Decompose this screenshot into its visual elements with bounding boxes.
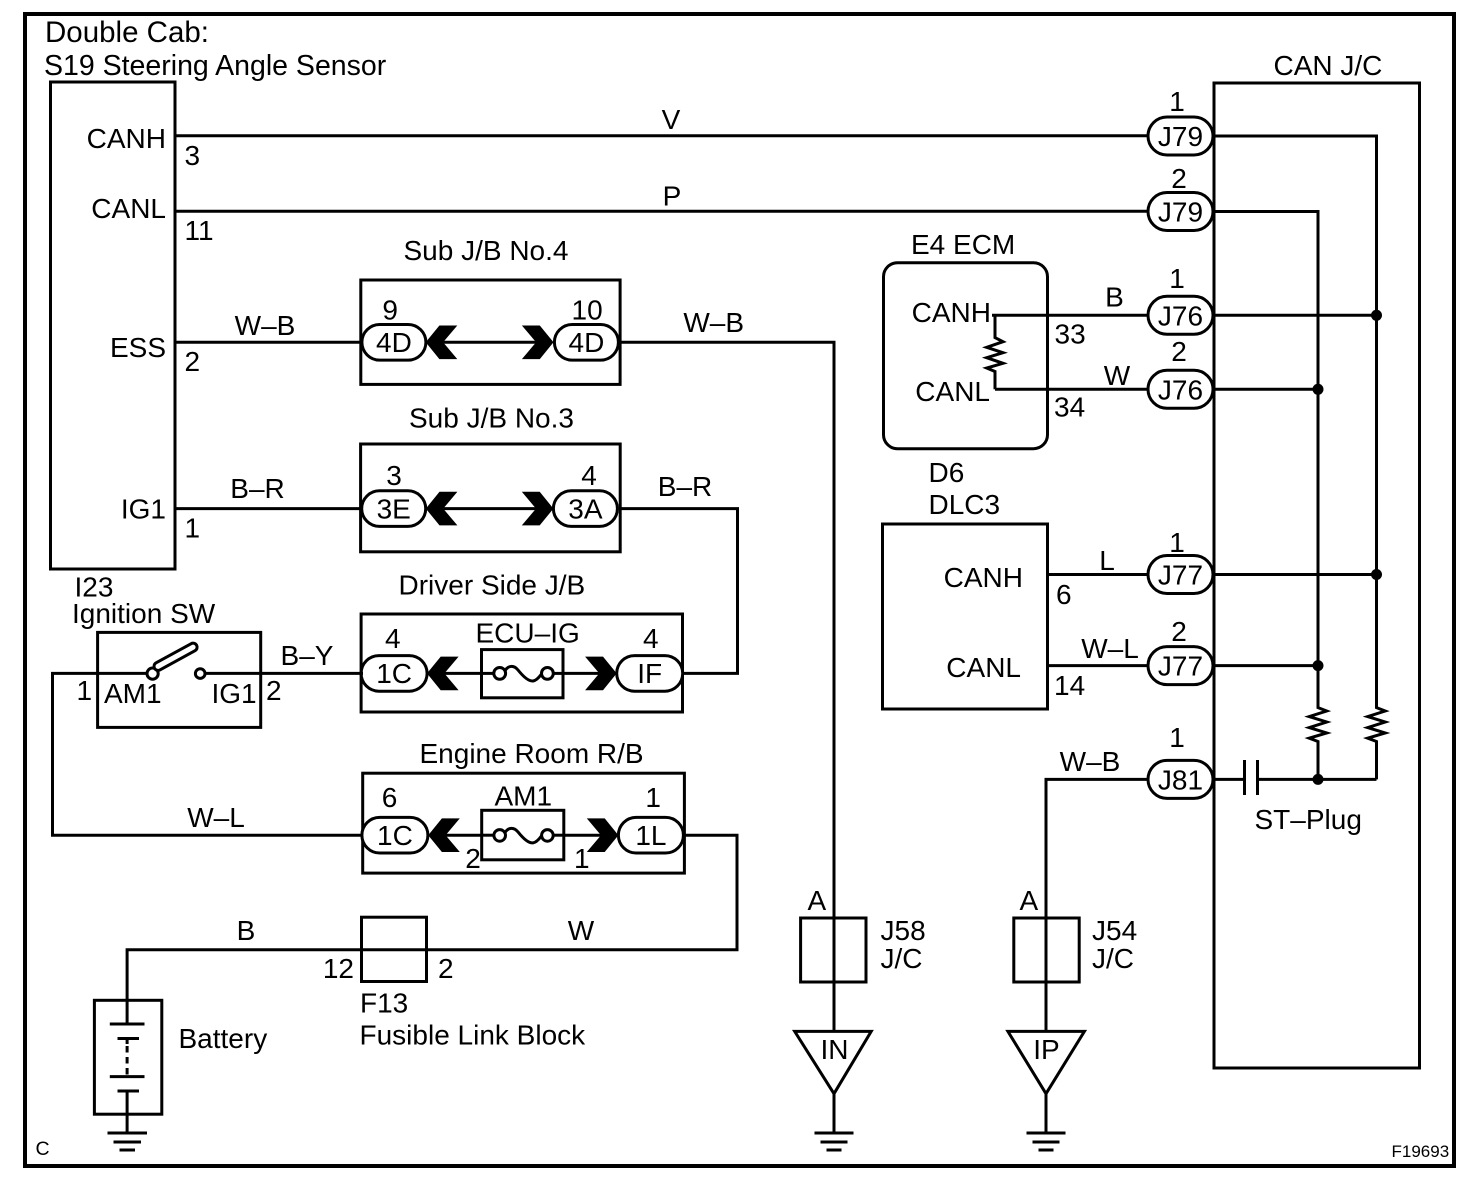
svg-text:CANL: CANL: [946, 652, 1021, 683]
wire W from 1L to fusible link F13: [427, 835, 738, 950]
svg-text:Fusible Link Block: Fusible Link Block: [360, 1020, 587, 1051]
svg-text:1: 1: [185, 513, 201, 544]
connector J77 pin 2: [1148, 647, 1213, 685]
junction J58 J/C square: [801, 918, 866, 982]
junction dot ST-plug CANL: [1313, 774, 1324, 785]
fuse AM1: [482, 781, 564, 860]
svg-text:Engine Room R/B: Engine Room R/B: [420, 738, 644, 769]
battery dashed center: [126, 1039, 129, 1045]
svg-text:CAN J/C: CAN J/C: [1274, 50, 1383, 81]
wire L from DLC3 CANH to J77 pin 1: [1048, 573, 1149, 576]
svg-text:B–R: B–R: [658, 471, 712, 502]
svg-text:IG1: IG1: [212, 678, 257, 709]
svg-text:CANH: CANH: [944, 562, 1023, 593]
svg-text:1: 1: [1169, 527, 1185, 558]
svg-text:CANH: CANH: [87, 123, 166, 154]
wire between 4D connectors: [443, 341, 536, 344]
svg-text:2: 2: [438, 953, 454, 984]
svg-text:W–B: W–B: [235, 310, 296, 341]
svg-text:AM1: AM1: [495, 781, 553, 812]
svg-text:J79: J79: [1158, 121, 1203, 152]
shield triangle IN: [795, 1031, 872, 1093]
wire W from ECM CANL to J76 pin 2: [995, 388, 1148, 391]
svg-text:CANH: CANH: [912, 297, 991, 328]
connector 1L pin 1: [618, 817, 683, 853]
svg-text:ST–Plug: ST–Plug: [1255, 804, 1362, 835]
junction dot CANH J76: [1371, 310, 1382, 321]
svg-text:6: 6: [382, 782, 398, 813]
wire inside switch from AM1 contact: [98, 672, 147, 675]
svg-text:D6: D6: [929, 457, 965, 488]
battery plate long top: [110, 1023, 145, 1026]
connector 3E pin 3: [362, 491, 426, 527]
svg-text:4D: 4D: [569, 327, 605, 358]
svg-text:C: C: [36, 1138, 50, 1160]
wire fuse AM1 to 1L: [564, 834, 601, 837]
svg-text:W–B: W–B: [683, 307, 744, 338]
svg-text:AM1: AM1: [104, 678, 162, 709]
wire CANL bus inside CAN J/C: [1214, 212, 1318, 708]
svg-text:E4 ECM: E4 ECM: [911, 229, 1015, 260]
wire CANH bus inside CAN J/C: [1214, 136, 1377, 707]
svg-text:6: 6: [1056, 579, 1072, 610]
svg-text:1C: 1C: [376, 658, 412, 689]
capacitor of ST-plug: [1243, 760, 1246, 795]
svg-text:DLC3: DLC3: [929, 489, 1001, 520]
junction dot CANL J76: [1313, 384, 1324, 395]
connector J77 pin 1: [1148, 556, 1213, 594]
component Sub J/B No.3 box: [361, 444, 621, 552]
svg-text:4: 4: [581, 460, 597, 491]
svg-text:J81: J81: [1158, 764, 1203, 795]
svg-text:Sub J/B No.4: Sub J/B No.4: [404, 235, 569, 266]
wire J77-2 inside CAN J/C: [1214, 664, 1318, 667]
svg-text:4: 4: [385, 623, 401, 654]
svg-text:J76: J76: [1158, 300, 1203, 331]
svg-text:33: 33: [1055, 319, 1086, 350]
svg-text:A: A: [808, 885, 827, 916]
svg-text:Battery: Battery: [179, 1023, 268, 1054]
wire through F13: [362, 948, 427, 951]
svg-text:W: W: [1104, 360, 1131, 391]
svg-text:B: B: [1105, 282, 1124, 313]
connector J76 pin 1: [1148, 296, 1213, 334]
ground under battery: [108, 1133, 148, 1150]
svg-text:1: 1: [574, 843, 590, 874]
connector J79 pin 1: [1148, 117, 1213, 155]
connector J81 pin 1: [1148, 760, 1213, 798]
svg-text:B: B: [237, 915, 256, 946]
wire inside switch to IG1 contact: [205, 672, 261, 675]
wire fuse to IF: [563, 672, 599, 675]
component Battery: [94, 1000, 267, 1133]
arrow left in Sub J/B No.3: [426, 492, 458, 526]
junction dot CANH J77: [1371, 569, 1382, 580]
battery plate short top: [118, 1037, 140, 1040]
connector IF pin 4: [617, 656, 683, 692]
switch contact AM1: [147, 668, 158, 679]
ground under IP: [1027, 1133, 1066, 1150]
fuse ECU-IG: [476, 618, 580, 698]
svg-text:B–Y: B–Y: [281, 640, 334, 671]
wire between 3E and 3A connectors: [443, 507, 536, 510]
wire B-R from S19 IG1 to Sub J/B No.3: [175, 507, 363, 510]
svg-text:Double Cab:: Double Cab:: [45, 16, 209, 49]
svg-text:2: 2: [1171, 616, 1187, 647]
svg-text:J/C: J/C: [1092, 943, 1134, 974]
arrow right in Driver Side J/B: [585, 657, 617, 691]
svg-text:J79: J79: [1158, 197, 1203, 228]
svg-text:9: 9: [382, 295, 398, 326]
arrow right in Sub J/B No.3: [522, 492, 554, 526]
svg-text:12: 12: [323, 953, 354, 984]
svg-text:Driver Side J/B: Driver Side J/B: [399, 570, 586, 601]
wire B-Y from Ignition SW to 1C: [261, 672, 363, 675]
component E4 ECM box: [884, 263, 1048, 449]
wire B from battery to F13: [127, 950, 361, 1024]
wire W-B from Sub J/B No.4 to J58 junction: [619, 342, 834, 1031]
junction dot CANL J77: [1313, 660, 1324, 671]
svg-text:J/C: J/C: [881, 943, 923, 974]
svg-text:J76: J76: [1158, 374, 1203, 405]
component Sub J/B No.4 box: [361, 280, 620, 384]
component Driver Side J/B box: [361, 614, 682, 712]
shield triangle IP: [1008, 1031, 1085, 1093]
connector J79 pin 2: [1148, 193, 1213, 231]
svg-text:W–L: W–L: [1081, 633, 1139, 664]
wire 1C to fuse: [444, 672, 481, 675]
wire W-L from Ignition SW pin 1 to Engine Room R/B: [53, 673, 364, 835]
arrow left in Engine Room R/B: [428, 818, 460, 852]
connector J76 pin 2: [1148, 370, 1213, 408]
wire 1C to fuse AM1: [446, 834, 482, 837]
component S19 box: [51, 82, 176, 569]
connector 1C pin 4: [361, 656, 427, 692]
wire W-L from DLC3 CANL to J77 pin 2: [1048, 664, 1149, 667]
arrow left in Sub J/B No.4: [426, 326, 458, 360]
terminating resistor CANH: [1368, 575, 1386, 780]
wire J77-1 inside CAN J/C: [1214, 573, 1377, 576]
component CAN J/C box: [1214, 83, 1420, 1068]
svg-text:S19 Steering Angle Sensor: S19 Steering Angle Sensor: [44, 50, 387, 82]
svg-text:J77: J77: [1158, 560, 1203, 591]
svg-text:11: 11: [185, 215, 214, 246]
svg-text:1: 1: [645, 782, 661, 813]
svg-text:2: 2: [266, 675, 282, 706]
svg-text:IG1: IG1: [121, 494, 166, 525]
component F13 Fusible Link Block box: [362, 917, 427, 981]
switch lever: [153, 642, 199, 672]
arrow right in Engine Room R/B: [587, 818, 619, 852]
svg-text:W–B: W–B: [1060, 746, 1121, 777]
svg-text:2: 2: [465, 843, 481, 874]
svg-text:W: W: [568, 915, 595, 946]
wire V from S19 CANH to J79 pin 1: [175, 134, 1148, 137]
component Ignition SW box: [98, 632, 261, 727]
svg-text:J77: J77: [1158, 651, 1203, 682]
wire ST-plug row inside CAN J/C: [1214, 778, 1243, 781]
wire W-B from J54 junction to J81: [1046, 779, 1149, 1031]
battery plate long bottom: [110, 1075, 145, 1078]
wire P from S19 CANL to J79 pin 2: [175, 210, 1148, 213]
arrow left in Driver Side J/B: [427, 657, 459, 691]
switch contact IG1: [195, 669, 205, 679]
connector 3A pin 4: [553, 491, 617, 527]
svg-text:A: A: [1020, 885, 1039, 916]
svg-text:P: P: [663, 181, 682, 212]
svg-text:W–L: W–L: [187, 802, 245, 833]
svg-text:Sub J/B No.3: Sub J/B No.3: [409, 403, 574, 434]
svg-text:IN: IN: [821, 1034, 849, 1065]
svg-text:14: 14: [1054, 670, 1085, 701]
svg-text:3: 3: [185, 140, 201, 171]
resistor inside ECM: [987, 315, 1003, 389]
svg-text:3A: 3A: [568, 494, 603, 525]
svg-text:2: 2: [185, 346, 201, 377]
wire B from ECM CANH to J76 pin 1: [992, 314, 1148, 317]
connector 4D pin 9: [362, 325, 426, 361]
svg-text:J54: J54: [1092, 915, 1137, 946]
junction J54 J/C square: [1014, 918, 1079, 982]
svg-text:2: 2: [1171, 336, 1187, 367]
svg-text:CANL: CANL: [915, 376, 990, 407]
svg-text:ECU–IG: ECU–IG: [476, 618, 580, 649]
svg-text:ESS: ESS: [110, 332, 166, 363]
svg-text:1: 1: [77, 675, 93, 706]
svg-text:3E: 3E: [377, 494, 411, 525]
svg-text:Ignition SW: Ignition SW: [72, 598, 216, 629]
svg-text:4D: 4D: [376, 327, 412, 358]
battery plate short bottom: [118, 1090, 140, 1093]
svg-text:1C: 1C: [377, 820, 413, 851]
svg-text:1: 1: [1169, 263, 1185, 294]
wire W-B from S19 ESS to Sub J/B No.4: [175, 341, 363, 344]
svg-text:34: 34: [1054, 392, 1085, 423]
component Engine Room R/B box: [363, 773, 685, 873]
svg-text:3: 3: [386, 460, 402, 491]
svg-text:J58: J58: [881, 915, 926, 946]
ground under IN: [815, 1133, 854, 1150]
svg-text:4: 4: [643, 623, 659, 654]
svg-text:F19693: F19693: [1392, 1142, 1450, 1161]
arrow right in Sub J/B No.4: [522, 326, 554, 360]
wire from battery to ground: [126, 1091, 129, 1133]
component DLC3 box: [883, 524, 1048, 709]
svg-text:2: 2: [1171, 163, 1187, 194]
svg-text:1: 1: [1169, 86, 1185, 117]
svg-text:1: 1: [1169, 722, 1185, 753]
wire J76-1 inside CAN J/C: [1214, 314, 1377, 317]
svg-text:F13: F13: [360, 988, 408, 1019]
svg-text:V: V: [662, 104, 681, 135]
wire from IN triangle to ground: [833, 1094, 836, 1133]
svg-text:IP: IP: [1033, 1034, 1059, 1065]
svg-text:B–R: B–R: [230, 473, 284, 504]
svg-text:10: 10: [572, 295, 603, 326]
svg-text:IF: IF: [637, 658, 662, 689]
connector 4D pin 10: [554, 325, 618, 361]
svg-text:CANL: CANL: [91, 193, 166, 224]
wire B-R from Sub J/B No.3 to Driver Side J/B IF: [619, 509, 738, 674]
terminating resistor CANL: [1309, 666, 1327, 780]
connector 1C pin 6: [362, 817, 428, 853]
wire from IP triangle to ground: [1045, 1094, 1048, 1133]
wire J76-2 inside CAN J/C: [1214, 388, 1318, 391]
svg-text:L: L: [1099, 545, 1115, 576]
svg-text:1L: 1L: [635, 820, 666, 851]
